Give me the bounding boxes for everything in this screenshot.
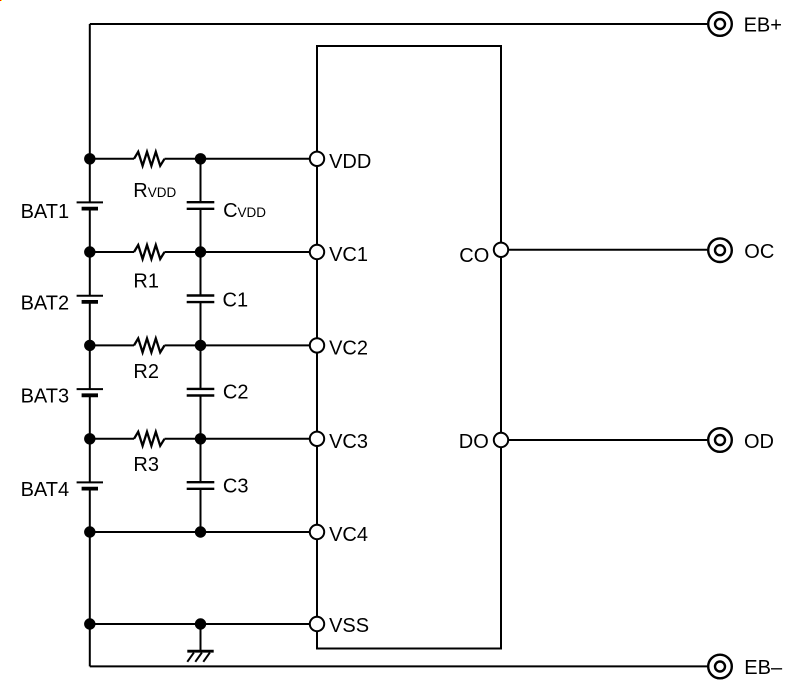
svg-text:BAT3: BAT3 — [21, 386, 70, 408]
svg-text:VC3: VC3 — [329, 431, 368, 453]
svg-text:VDD: VDD — [329, 151, 371, 173]
svg-text:C1: C1 — [223, 290, 249, 312]
svg-text:CVDD: CVDD — [223, 200, 266, 222]
svg-text:EB+: EB+ — [744, 15, 782, 37]
svg-text:OD: OD — [744, 431, 774, 453]
svg-text:BAT4: BAT4 — [21, 479, 70, 501]
svg-text:EB–: EB– — [744, 657, 783, 679]
svg-text:R3: R3 — [133, 454, 159, 476]
svg-text:VC2: VC2 — [329, 337, 368, 359]
svg-text:VSS: VSS — [329, 615, 369, 637]
svg-text:BAT1: BAT1 — [21, 201, 70, 223]
svg-text:C2: C2 — [223, 381, 249, 403]
svg-text:BAT2: BAT2 — [21, 293, 70, 315]
svg-text:DO: DO — [459, 431, 489, 453]
svg-text:CO: CO — [459, 245, 489, 267]
svg-text:RVDD: RVDD — [133, 180, 176, 202]
svg-text:VC1: VC1 — [329, 244, 368, 266]
svg-text:OC: OC — [744, 241, 774, 263]
svg-text:R2: R2 — [133, 361, 159, 383]
svg-text:C3: C3 — [223, 475, 249, 497]
svg-text:R1: R1 — [133, 271, 159, 293]
svg-text:VC4: VC4 — [329, 524, 368, 546]
